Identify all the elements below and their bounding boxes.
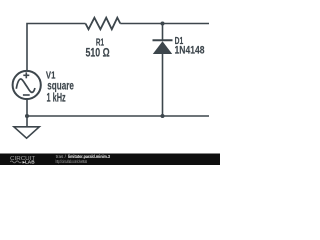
wire V1 bottom to ground node: [26, 98, 28, 116]
node bottom diode: [161, 114, 165, 118]
footer CircuitLab logo wave: [10, 161, 21, 163]
svg-text:▸LAB: ▸LAB: [22, 159, 35, 164]
svg-text:square: square: [47, 79, 74, 92]
footer bar: [0, 154, 220, 166]
wire D1 anode to bottom wire: [162, 54, 164, 116]
svg-text:510 Ω: 510 Ω: [86, 46, 110, 60]
diode D1 triangle: [153, 41, 172, 54]
resistor R1: [86, 18, 121, 30]
wire R1 right to open end: [120, 23, 209, 25]
wire top junction to diode D1: [162, 24, 164, 41]
bottom wire: [27, 115, 209, 117]
svg-text:http://circuitlab.com/c/se9ta5: http://circuitlab.com/c/se9ta5: [56, 159, 88, 164]
footer CircuitLab logo CIRCUIT: [10, 154, 110, 164]
voltage source V1: [13, 71, 41, 99]
ground: [14, 116, 39, 138]
wire V1 top to R1 left lead: [27, 24, 86, 72]
diode D1 cathode bar: [153, 39, 173, 41]
node junction top: [161, 22, 165, 26]
svg-text:1N4148: 1N4148: [175, 45, 205, 57]
svg-text:1 kHz: 1 kHz: [47, 92, 66, 105]
node bottom left: [25, 114, 29, 118]
